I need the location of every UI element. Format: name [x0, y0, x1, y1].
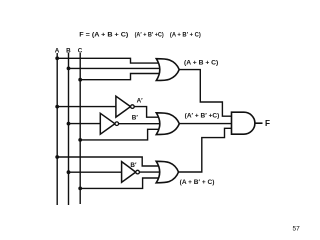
or-gate G1 (A + B + C) — [156, 59, 179, 81]
svg-text:(A + B′ + C): (A + B′ + C) — [180, 179, 215, 186]
or-gate G3 (A + B' + C) — [156, 161, 178, 183]
svg-text:57: 57 — [293, 226, 301, 233]
wire B to OR gate G1 middle input — [69, 67, 162, 69]
wire input bus B vertical — [68, 53, 70, 205]
svg-text:(A + B′ + C): (A + B′ + C) — [170, 32, 201, 39]
wire C to OR gate G1 bottom input — [80, 74, 160, 80]
and-gate U4 output F — [232, 112, 255, 134]
svg-text:B′: B′ — [130, 162, 137, 169]
wire A to inverter U1 input — [57, 106, 116, 108]
inverter U3 B' — [122, 162, 140, 183]
svg-text:A′: A′ — [137, 97, 144, 104]
inverter U1 A' — [116, 96, 134, 117]
wire B to inverter U2 input — [69, 123, 101, 125]
inverter U2 B' — [100, 113, 118, 134]
wire U4 output — [255, 122, 263, 124]
junction dot A tap 3 — [55, 155, 59, 159]
wire G3 output to AND gate bottom input — [179, 128, 234, 172]
wire U2 output to OR gate G2 middle input — [119, 123, 161, 125]
title label F = (A + B + C) (A' + B' +C) (A + B' + C) — [79, 32, 200, 39]
svg-text:(A′ + B′ +C): (A′ + B′ +C) — [185, 113, 220, 120]
wire B to inverter U3 input — [69, 171, 123, 173]
or-gate G2 (A' + B' +C) — [156, 113, 179, 135]
svg-text:B′: B′ — [132, 115, 139, 122]
wire C to OR gate G2 bottom input — [80, 129, 160, 140]
wire U1 output to OR gate G2 top input — [134, 107, 160, 118]
junction dot C tap 3 — [78, 187, 82, 191]
svg-text:F = (A + B + C): F = (A + B + C) — [79, 32, 128, 39]
wire U3 output to OR gate G3 middle input — [139, 171, 161, 173]
wire G2 output to AND gate middle input — [179, 123, 233, 125]
svg-text:F: F — [265, 119, 270, 128]
junction dot A tap 2 — [55, 105, 59, 109]
wire A to OR gate G1 top input — [57, 58, 160, 63]
junction dot A tap 1 — [55, 56, 59, 60]
junction dot B tap 3 — [67, 170, 71, 174]
wire G1 output to AND gate top input — [179, 70, 233, 117]
junction dot B tap 1 — [67, 67, 71, 71]
junction dot C tap 2 — [78, 138, 82, 142]
junction dot C tap 1 — [78, 78, 82, 82]
wire A to OR gate G3 top input — [57, 157, 160, 166]
svg-text:(A′ + B′ +C): (A′ + B′ +C) — [135, 32, 164, 39]
wire input bus A vertical — [56, 53, 58, 205]
svg-text:(A + B + C): (A + B + C) — [184, 60, 218, 67]
junction dot B tap 2 — [67, 122, 71, 126]
wire input bus C vertical — [79, 53, 81, 204]
wire C to OR gate G3 bottom input — [80, 178, 160, 188]
